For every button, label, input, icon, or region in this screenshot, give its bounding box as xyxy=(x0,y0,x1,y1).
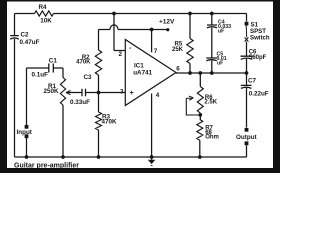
svg-text:3: 3 xyxy=(120,89,124,96)
svg-text:4: 4 xyxy=(156,92,160,99)
svg-text:560pF: 560pF xyxy=(249,55,267,61)
svg-text:uF: uF xyxy=(218,29,224,35)
svg-text:2: 2 xyxy=(119,51,123,58)
svg-text:0.33uF: 0.33uF xyxy=(70,99,90,106)
svg-text:Output: Output xyxy=(236,134,258,141)
svg-text:25K: 25K xyxy=(172,47,184,53)
svg-text:C2: C2 xyxy=(21,32,30,39)
svg-text:470K: 470K xyxy=(102,118,118,125)
svg-text:C1: C1 xyxy=(49,58,58,65)
svg-text:C7: C7 xyxy=(248,77,257,84)
svg-text:0.22uF: 0.22uF xyxy=(249,90,269,97)
svg-text:470K: 470K xyxy=(76,60,91,66)
svg-text:250K: 250K xyxy=(43,88,59,95)
svg-text:Ohm: Ohm xyxy=(205,134,219,140)
svg-text:+: + xyxy=(130,90,134,97)
svg-text:C3: C3 xyxy=(83,74,92,81)
svg-text:0.1uF: 0.1uF xyxy=(32,72,49,79)
svg-text:R4: R4 xyxy=(38,4,47,11)
svg-text:uF: uF xyxy=(217,61,223,67)
svg-text:2.5K: 2.5K xyxy=(204,100,217,106)
svg-text:0.47uF: 0.47uF xyxy=(20,39,40,46)
svg-text:7: 7 xyxy=(154,48,158,55)
svg-text:6: 6 xyxy=(176,66,180,73)
svg-text:10K: 10K xyxy=(40,18,52,25)
svg-text:Input: Input xyxy=(17,129,33,136)
svg-text:Switch: Switch xyxy=(250,34,270,41)
svg-text:uA741: uA741 xyxy=(133,69,152,76)
svg-text:+12V: +12V xyxy=(159,19,175,26)
